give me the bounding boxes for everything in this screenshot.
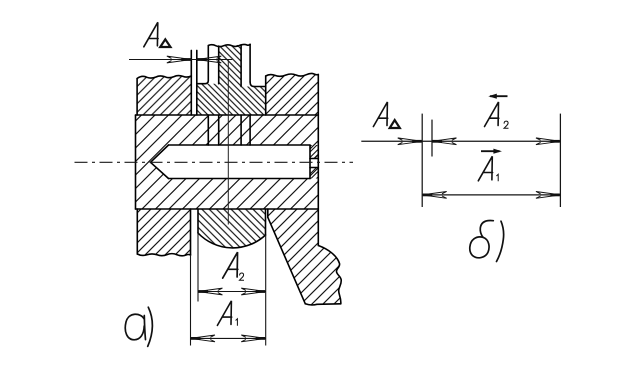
bottom-right block outline [267,209,269,217]
chain diagram arrow of A1 pointing right at node line 3 [536,192,561,199]
through hole white [310,159,318,168]
arrow right of dimension A2 [241,288,266,295]
wall right of bore dense hatch [310,145,318,179]
b) label handwritten [470,221,504,262]
strip verticals (pin hole edges) [207,115,209,145]
gear hub + flange hatched [197,45,266,115]
extension line right of A1 and A2 [265,235,267,346]
label A2 (subscript 2) figure b [504,121,509,128]
label A1 (subscript 1) figure b [496,174,498,181]
A2 dim line [198,291,266,293]
top-right housing block hatched [266,73,319,115]
direction arrow (decreasing link) above A2 pointing left [490,95,508,97]
arrow right of dimension A1 [241,335,266,342]
A1 dim line [191,337,266,339]
gear rim strip edges [207,46,209,81]
chain diagram arrow of A_delta pointing right at node line 1 [398,138,423,145]
chain diagram arrow of A2 pointing left at node line 2 [432,138,457,145]
extension line left of A2 [197,233,199,302]
bottom-left block hatched [137,209,190,256]
label A_delta (letter A) figure a [144,22,158,47]
arrow of gap dimension A_delta pointing left at right gap edge [197,56,222,63]
top-right block wavy top [266,73,319,76]
label A1 (letter A) figure b [478,156,492,181]
bore [169,144,311,146]
bore white cutout [151,145,169,179]
arrow of gap dimension A_delta pointing right at left gap edge [167,56,192,63]
label A_delta (delta subscript) figure b [390,120,400,128]
label A_delta (delta subscript) figure a [160,39,170,47]
label A1 (letter A) figure a [217,301,231,326]
cover block [137,76,191,79]
label A_delta (letter A) figure b [373,102,387,127]
chain node line 3 (right boundary) [559,114,561,207]
chain dimension line A1 [422,194,560,196]
a) label handwritten [125,307,152,346]
direction arrow (increasing link) above A1 pointing right [481,150,500,152]
bottom plug hatched (rounded bottom) [198,209,266,248]
label A2 (subscript 2) figure a [240,273,245,280]
chain diagram arrow of A1 pointing left at node line 1 [422,192,447,199]
label A2 (letter A) figure a [223,252,238,278]
A_delta dim line [129,59,232,61]
label A2 (letter A) figure b [485,102,499,127]
bottom-right block hatched [268,209,341,305]
vertical pin centerline [227,60,229,225]
arrow left of dimension A1 [191,335,216,342]
chain diagram arrow of A2 pointing right at node line 3 [536,138,561,145]
chain node line 1 (left boundary) [421,114,423,207]
extension line left of A1 [190,255,192,346]
label A1 (subscript 1) figure a [236,319,238,326]
cover block top-left hatched [137,76,191,115]
through hole in wall [310,158,318,160]
arrow left of dimension A2 [198,288,223,295]
centerline of bore (dash-dot) [75,161,354,163]
chain main line with A_delta and A2 [361,140,560,142]
bottom-left block [136,209,138,254]
housing band hatched body [136,115,319,209]
chain node line 2 (right edge of gap A_delta) [431,120,433,157]
plug outline [197,209,199,233]
housing band [136,114,319,116]
gap second line / gear flange left edge [196,50,198,115]
gear top wavy [208,44,250,46]
